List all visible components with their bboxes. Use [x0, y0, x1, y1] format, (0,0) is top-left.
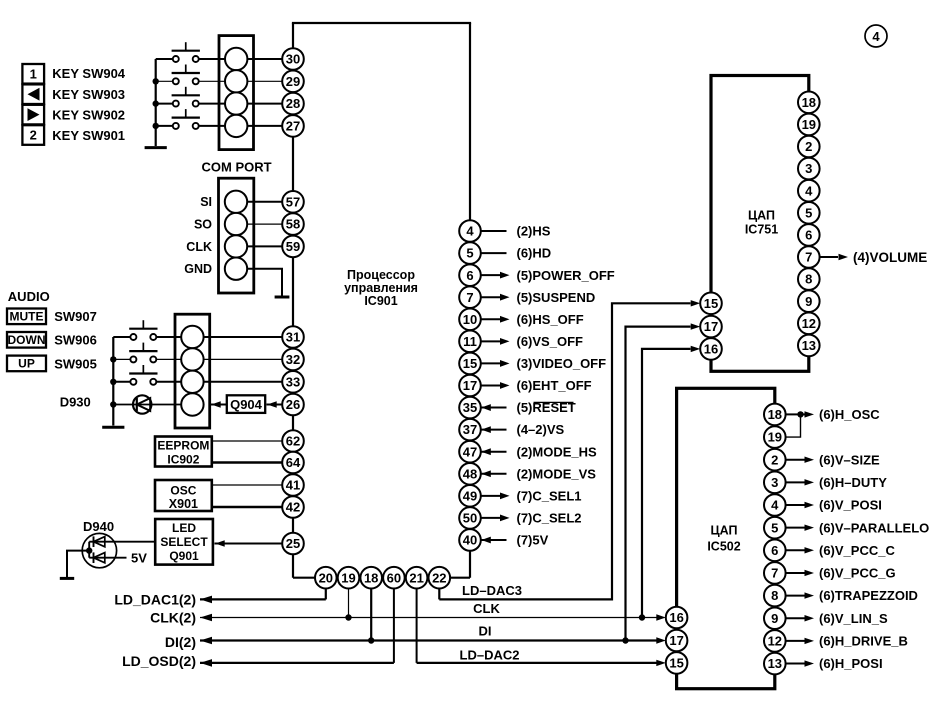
wire D940 bottom diode to 5V [89, 557, 126, 559]
wire audio bus to LED D930 to connector [113, 404, 181, 406]
IC901 pin 28 [282, 93, 304, 115]
junction dot DI at IC751 riser [622, 637, 628, 643]
pushbutton switch SW904 [173, 56, 179, 62]
svg-text:10: 10 [463, 312, 477, 327]
IC901 pin 5 [459, 242, 481, 264]
svg-text:IC751: IC751 [745, 223, 778, 237]
svg-text:LD–DAC2: LD–DAC2 [460, 648, 520, 663]
IC502 pin 12 [764, 630, 786, 652]
IC901 pin 48 [459, 463, 481, 485]
wire IC502 pin 18 to H_OSC node [786, 413, 801, 415]
svg-text:IC502: IC502 [707, 540, 740, 554]
svg-text:(2)MODE_HS: (2)MODE_HS [517, 444, 598, 459]
svg-text:13: 13 [802, 338, 816, 353]
wire IC502 pin 13 signal [786, 663, 805, 665]
wire IC901 pin 26 to Q904 [267, 404, 283, 406]
svg-text:3: 3 [805, 161, 812, 176]
IC901 pin 20 [315, 567, 337, 589]
svg-text:(6)V_PCC_C: (6)V_PCC_C [819, 543, 895, 558]
IC901 pin 40 [459, 529, 481, 551]
wire IC901 bottom-left jog [293, 577, 326, 579]
svg-text:13: 13 [768, 656, 782, 671]
IC502 pin 15 [666, 652, 688, 674]
wire CLK riser to IC751 pin 16 [642, 349, 691, 618]
IC502 pin 8 [764, 585, 786, 607]
junction dot CLK at IC751 riser [639, 614, 645, 620]
junction dot CLK at pin 19 [345, 614, 351, 620]
key cap legend box left-arrow [22, 84, 44, 104]
svg-text:19: 19 [802, 117, 816, 132]
svg-text:18: 18 [768, 407, 782, 422]
pushbutton switch SW905 [130, 379, 136, 385]
wire IC901 pin 6 signal [481, 274, 501, 276]
junction dot audio bus SW905 [110, 379, 116, 385]
svg-text:35: 35 [463, 400, 477, 415]
IC901 pin 15 [459, 353, 481, 375]
IC901 pin 33 [282, 371, 304, 393]
COM PORT contact circle SO [225, 213, 247, 235]
svg-text:22: 22 [432, 570, 446, 585]
svg-text:IC901: IC901 [364, 294, 397, 308]
wire switch SW902 to connector [199, 103, 226, 105]
processor IC901 block outline (left pin column) [292, 23, 294, 578]
wire pin 22 riser to LD-DAC3 [438, 589, 440, 600]
svg-text:12: 12 [768, 634, 782, 649]
svg-text:12: 12 [802, 316, 816, 331]
ground audio bus [102, 426, 124, 429]
svg-text:Процессор: Процессор [347, 268, 415, 282]
wire IC901 pin 7 signal [481, 296, 501, 298]
COM PORT contact circle SI [225, 191, 247, 213]
junction dot D940 common [86, 547, 92, 553]
arrow into Q904 from IC901 pin 26 [267, 401, 277, 407]
wire D940 common to ground [67, 551, 89, 578]
svg-text:27: 27 [286, 119, 300, 134]
key cap box DOWN [7, 332, 46, 348]
svg-text:49: 49 [463, 488, 477, 503]
svg-text:Q904: Q904 [230, 397, 263, 412]
svg-text:(6)TRAPEZZOID: (6)TRAPEZZOID [819, 588, 918, 603]
key cap legend box 2 [22, 125, 44, 145]
IC901 pin 27 [282, 115, 304, 137]
IC901 pin 10 [459, 308, 481, 330]
svg-text:7: 7 [805, 250, 812, 265]
IC901 pin 30 [282, 48, 304, 70]
svg-text:X901: X901 [169, 497, 198, 511]
svg-text:4: 4 [771, 498, 779, 513]
svg-text:(3)VIDEO_OFF: (3)VIDEO_OFF [517, 356, 607, 371]
IC751 pin 19 [798, 114, 820, 136]
arrow (6)V_POSI out [805, 502, 815, 508]
svg-text:UP: UP [18, 357, 35, 371]
svg-text:8: 8 [771, 588, 778, 603]
net DI wire [200, 639, 657, 641]
svg-text:EEPROM: EEPROM [157, 439, 209, 453]
arrow (6)H–DUTY out [805, 479, 815, 485]
audio connector contact circle row 4 [181, 393, 203, 415]
svg-text:25: 25 [286, 536, 300, 551]
IC751 pin 15 [700, 293, 722, 315]
wire audio connector to IC901 pin 33 [204, 381, 283, 383]
arrow LD-DAC3 into IC751 pin 15 [691, 300, 701, 306]
svg-text:17: 17 [463, 378, 477, 393]
junction dot H_OSC [797, 411, 803, 417]
IC502 pin 6 [764, 540, 786, 562]
svg-text:KEY SW903: KEY SW903 [52, 87, 125, 102]
wire connector to IC901 pin 28 [247, 103, 282, 105]
svg-text:CLK(2): CLK(2) [150, 609, 196, 625]
wire audio bus to switch SW906 [113, 358, 130, 360]
COM PORT contact circle CLK [225, 235, 247, 257]
arrow DI into IC751 pin 17 [691, 323, 701, 329]
svg-text:33: 33 [286, 374, 300, 389]
IC502 pin 19 [764, 426, 786, 448]
wire DI riser to IC751 pin 17 [626, 327, 691, 641]
arrow (6)H_POSI out [805, 660, 815, 666]
arrow (6)V–SIZE out [805, 457, 815, 463]
arrow (6)TRAPEZZOID out [805, 592, 815, 598]
svg-text:30: 30 [286, 52, 300, 67]
wire D940 top diode to LED SELECT [89, 541, 155, 543]
IC502 pin 4 [764, 494, 786, 516]
svg-text:KEY SW901: KEY SW901 [52, 128, 125, 143]
arrow (6)V–PARALLELO out [805, 524, 815, 530]
wire OSC to IC901 pin 42 [212, 506, 282, 508]
key cap box MUTE [7, 309, 46, 325]
svg-text:19: 19 [341, 570, 355, 585]
wire IC901 bottom-right jog [439, 577, 470, 579]
key cap box UP [7, 356, 46, 372]
wire IC751 pin 7 to VOLUME [820, 256, 838, 258]
ground key switch bus [145, 146, 167, 149]
IC751 pin 4 [798, 180, 820, 202]
svg-text:(6)H_OSC: (6)H_OSC [819, 407, 880, 422]
svg-text:64: 64 [286, 455, 301, 470]
wire switch SW905 to audio connector [157, 381, 182, 383]
arrow (6)V_PCC_G out [805, 570, 815, 576]
wire IC901 pin 4 signal [481, 230, 507, 232]
svg-text:(5)SUSPEND: (5)SUSPEND [517, 290, 596, 305]
wire IC502 pin 5 signal [786, 527, 805, 529]
wire EEPROM to IC901 pin 62 [212, 440, 282, 442]
svg-text:DI: DI [479, 624, 492, 639]
arrow (6)V_PCC_C out [805, 547, 815, 553]
IC751 pin 5 [798, 202, 820, 224]
net LD_DAC1(2) wire [200, 598, 326, 600]
audio connector contact circle row 2 [181, 348, 203, 370]
svg-text:9: 9 [805, 294, 812, 309]
IC901 pin 4 [459, 220, 481, 242]
junction dot DI at pin 18 [368, 637, 374, 643]
wire COM PORT SI to IC901 pin 57 [247, 201, 282, 203]
IC502 pin 18 [764, 404, 786, 426]
arrow into LED SELECT from IC901 pin 25 [215, 540, 225, 546]
arrow CLK into IC751 pin 16 [691, 346, 701, 352]
junction dot audio bus SW906 [110, 356, 116, 362]
audio connector contact circle row 3 [181, 371, 203, 393]
svg-text:(6)V–SIZE: (6)V–SIZE [819, 452, 880, 467]
IC901 pin 58 [282, 213, 304, 235]
svg-text:(7)5V: (7)5V [517, 533, 549, 548]
wire pin 60 riser to LD_OSD [393, 589, 395, 663]
svg-text:18: 18 [802, 95, 816, 110]
svg-text:4: 4 [872, 29, 880, 44]
svg-text:26: 26 [286, 397, 300, 412]
svg-text:(6)HS_OFF: (6)HS_OFF [517, 312, 584, 327]
IC901 pin 47 [459, 441, 481, 463]
svg-text:8: 8 [805, 272, 812, 287]
svg-text:SI: SI [200, 195, 212, 209]
svg-text:37: 37 [463, 422, 477, 437]
IC751 pin 2 [798, 136, 820, 158]
wire switch SW907 to audio connector [157, 336, 182, 338]
svg-text:16: 16 [704, 342, 718, 357]
wire audio bus to switch SW905 [113, 381, 130, 383]
wire H_OSC stub [801, 413, 805, 415]
IC502 pin 5 [764, 517, 786, 539]
wire IC901 top edge [292, 22, 471, 24]
wire pin 19 riser to CLK [348, 589, 350, 618]
svg-text:58: 58 [286, 217, 300, 232]
svg-text:(6)EHT_OFF: (6)EHT_OFF [517, 378, 592, 393]
svg-text:LD_DAC1(2): LD_DAC1(2) [114, 591, 196, 607]
svg-text:(4–2)VS: (4–2)VS [517, 422, 565, 437]
IC901 pin 41 [282, 474, 304, 496]
wire IC901 pin 48 signal [481, 473, 507, 475]
svg-text:(6)V_POSI: (6)V_POSI [819, 498, 882, 513]
svg-text:17: 17 [669, 633, 683, 648]
wire switch SW903 to connector [199, 80, 226, 82]
svg-text:5: 5 [771, 520, 778, 535]
IC502 pin 13 [764, 653, 786, 675]
wire key bus to switch SW904 [156, 58, 173, 60]
svg-text:9: 9 [771, 611, 778, 626]
wire IC901 pin 40 signal [481, 539, 507, 541]
IC502 pin 9 [764, 607, 786, 629]
wire IC901 pin 37 signal [481, 429, 507, 431]
DAC IC751 [711, 76, 809, 372]
key cap legend box right-arrow [22, 105, 44, 125]
connector block (audio) [175, 314, 210, 428]
wire IC502 pin 7 signal [786, 572, 805, 574]
IC751 pin 18 [798, 92, 820, 114]
svg-text:3: 3 [771, 475, 778, 490]
svg-text:AUDIO: AUDIO [8, 289, 50, 304]
pushbutton switch SW906 [130, 356, 136, 362]
svg-text:28: 28 [286, 96, 300, 111]
svg-text:LED: LED [172, 521, 196, 535]
COM PORT contact circle GND [225, 258, 247, 280]
svg-text:(6)H_DRIVE_B: (6)H_DRIVE_B [819, 634, 908, 649]
svg-text:42: 42 [286, 500, 300, 515]
svg-text:4: 4 [805, 183, 813, 198]
IC751 pin 17 [700, 316, 722, 338]
wire switch SW904 to connector [199, 58, 226, 60]
EEPROM IC902 [155, 437, 212, 467]
svg-text:7: 7 [466, 290, 473, 305]
IC751 pin 3 [798, 158, 820, 180]
junction dot audio bus D930 [110, 401, 116, 407]
LED D930 [133, 395, 151, 413]
svg-text:(2)MODE_VS: (2)MODE_VS [517, 466, 597, 481]
IC502 pin 16 [666, 607, 688, 629]
connector block COM PORT [219, 178, 254, 293]
pushbutton switch SW903 [173, 78, 179, 84]
wire key bus to switch SW903 [156, 80, 173, 82]
svg-text:GND: GND [184, 262, 212, 276]
wire pin 21 riser to LD-DAC2 [416, 589, 418, 663]
svg-text:DI(2): DI(2) [165, 634, 196, 650]
wire IC901 pin 47 signal [481, 451, 507, 453]
IC901 pin 50 [459, 507, 481, 529]
svg-text:4: 4 [466, 224, 474, 239]
svg-text:41: 41 [286, 478, 300, 493]
IC901 pin 31 [282, 326, 304, 348]
svg-text:SW907: SW907 [54, 309, 97, 324]
IC901 pin 22 [429, 567, 451, 589]
svg-text:D930: D930 [60, 395, 91, 410]
svg-text:40: 40 [463, 533, 477, 548]
wire key bus to switch SW902 [156, 103, 173, 105]
net LD-DAC2 wire [417, 662, 657, 664]
pushbutton switch SW901 [173, 123, 179, 129]
svg-text:CLK: CLK [186, 240, 212, 254]
svg-text:6: 6 [466, 268, 473, 283]
svg-text:15: 15 [669, 656, 683, 671]
arrow H_OSC out [805, 411, 815, 417]
svg-text:16: 16 [669, 610, 683, 625]
wire pin 18 riser to DI [370, 589, 372, 641]
svg-text:(6)V–PARALLELO: (6)V–PARALLELO [819, 520, 929, 535]
svg-text:2: 2 [771, 452, 778, 467]
wire IC901 pin 25 to LED SELECT [215, 543, 283, 545]
svg-text:57: 57 [286, 194, 300, 209]
svg-text:(4)VOLUME: (4)VOLUME [853, 250, 927, 265]
wire IC901 right pin column [469, 23, 471, 578]
svg-text:17: 17 [704, 319, 718, 334]
wire pin 20 riser to LD_DAC1 [325, 589, 327, 600]
IC901 pin 26 [282, 394, 304, 416]
svg-text:18: 18 [364, 570, 378, 585]
IC901 pin 32 [282, 349, 304, 371]
wire IC502 pin 4 signal [786, 504, 805, 506]
wire switch SW901 to connector [199, 125, 226, 127]
svg-text:(5)POWER_OFF: (5)POWER_OFF [517, 268, 615, 283]
svg-text:(6)HD: (6)HD [517, 246, 552, 261]
wire switch SW906 to audio connector [157, 358, 182, 360]
connector contact circle row 3 (keys) [225, 92, 247, 114]
wire audio connector to IC901 pin 31 [204, 336, 283, 338]
svg-text:ЦАП: ЦАП [711, 524, 738, 538]
junction dot key bus row SW901 [153, 123, 159, 129]
svg-text:59: 59 [286, 239, 300, 254]
arrow LD_OSD out [200, 659, 212, 667]
key cap legend box 1 [22, 64, 44, 84]
svg-text:KEY SW904: KEY SW904 [52, 66, 126, 81]
arrow (6)V_LIN_S out [805, 615, 815, 621]
wire key bus to switch SW901 [156, 125, 173, 127]
svg-text:ЦАП: ЦАП [748, 209, 775, 223]
svg-text:50: 50 [463, 511, 477, 526]
wire Q904 to audio connector [211, 404, 227, 406]
IC901 pin 19 [338, 567, 360, 589]
svg-text:SW906: SW906 [54, 333, 97, 348]
svg-text:(7)C_SEL1: (7)C_SEL1 [517, 488, 582, 503]
wire IC901 pin 10 signal [481, 318, 501, 320]
svg-text:(6)H_POSI: (6)H_POSI [819, 656, 883, 671]
wire connector to IC901 pin 27 [247, 125, 282, 127]
svg-text:LD_OSD(2): LD_OSD(2) [122, 653, 196, 669]
ground COM PORT [275, 296, 290, 299]
svg-text:(6)V_LIN_S: (6)V_LIN_S [819, 611, 888, 626]
IC901 pin 35 [459, 397, 481, 419]
oscillator X901 [155, 480, 212, 511]
IC901 pin 37 [459, 419, 481, 441]
IC502 pin 3 [764, 472, 786, 494]
arrow LD-DAC2 into IC502 pin 15 [656, 660, 666, 666]
IC901 pin 57 [282, 191, 304, 213]
IC901 pin 42 [282, 496, 304, 518]
svg-text:(6)H–DUTY: (6)H–DUTY [819, 475, 887, 490]
IC901 pin 6 [459, 264, 481, 286]
svg-text:2: 2 [805, 139, 812, 154]
connector block (key matrix) [219, 36, 254, 150]
sheet number circle 4 [865, 25, 887, 47]
svg-text:1: 1 [30, 66, 37, 81]
IC502 pin 2 [764, 449, 786, 471]
arrow into audio connector from Q904 [211, 401, 221, 407]
wire IC901 pin 15 signal [481, 362, 501, 364]
IC751 pin 12 [798, 313, 820, 335]
IC901 pin 18 [360, 567, 382, 589]
svg-text:(7)C_SEL2: (7)C_SEL2 [517, 511, 582, 526]
svg-text:SO: SO [194, 218, 212, 232]
svg-text:7: 7 [771, 566, 778, 581]
connector contact circle row 2 (keys) [225, 70, 247, 92]
wire IC901 pin 35 signal [481, 407, 507, 409]
svg-text:48: 48 [463, 466, 477, 481]
net CLK wire [200, 617, 657, 619]
svg-text:OSC: OSC [170, 483, 196, 497]
arrow CLK(2) out [200, 614, 212, 622]
svg-text:20: 20 [319, 570, 333, 585]
LED SELECT Q901 [155, 519, 213, 565]
wire IC901 pin 50 signal [481, 517, 501, 519]
IC751 pin 13 [798, 335, 820, 357]
svg-text:DOWN: DOWN [8, 333, 46, 347]
wire IC502 pin 2 signal [786, 459, 805, 461]
svg-text:32: 32 [286, 352, 300, 367]
svg-text:LD–DAC3: LD–DAC3 [462, 583, 522, 598]
IC901 pin 21 [406, 567, 428, 589]
svg-text:2: 2 [30, 128, 37, 143]
svg-text:5: 5 [466, 246, 473, 261]
wire connector to IC901 pin 30 [247, 58, 282, 60]
svg-text:15: 15 [704, 296, 718, 311]
svg-text:SW905: SW905 [54, 356, 97, 371]
wire COM PORT CLK to IC901 pin 59 [247, 245, 282, 247]
junction dot key bus row SW902 [153, 100, 159, 106]
IC901 pin 59 [282, 236, 304, 258]
connector contact circle row 4 (keys) [225, 115, 247, 137]
wire OSC to IC901 pin 41 [212, 484, 282, 486]
svg-text:(2)HS: (2)HS [517, 224, 551, 239]
wire IC901 pin 17 signal [481, 384, 501, 386]
IC901 pin 64 [282, 452, 304, 474]
svg-text:D940: D940 [83, 519, 114, 534]
net LD-DAC3 wire [439, 303, 690, 599]
net LD_OSD(2) wire [200, 662, 394, 664]
